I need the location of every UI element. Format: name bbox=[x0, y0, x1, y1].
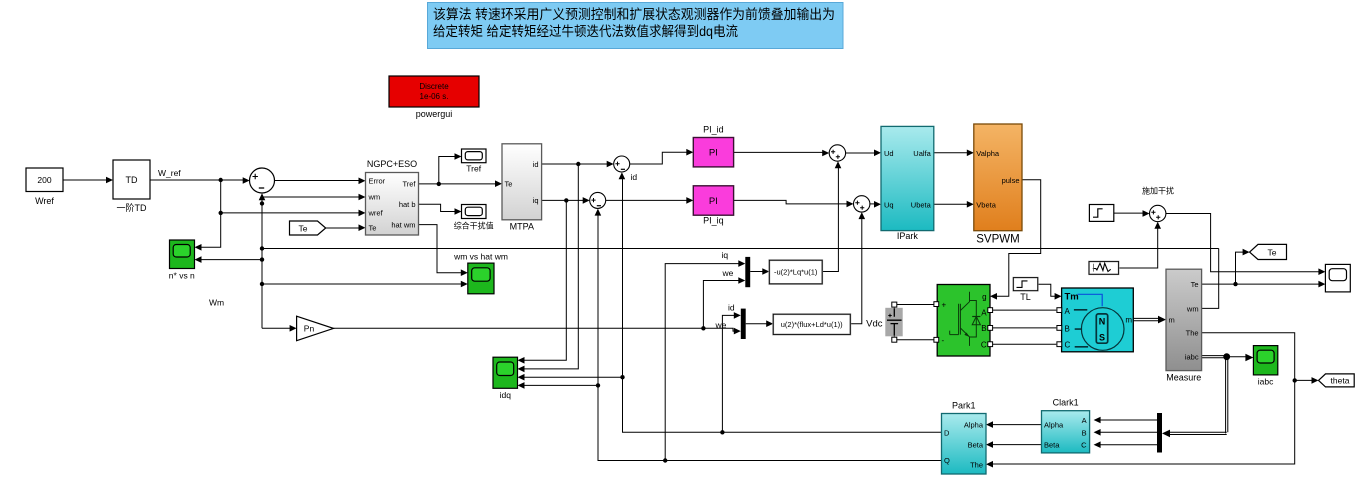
node W_ref branch down to wref and n*vs n scope bbox=[195, 180, 223, 251]
svg-text:Error: Error bbox=[369, 177, 386, 186]
svg-text:施加干扰: 施加干扰 bbox=[1142, 186, 1174, 196]
svg-text:Ud: Ud bbox=[884, 149, 894, 158]
wire Vdc plus to inverter bbox=[892, 302, 935, 308]
wire TL to motor Tm bbox=[1038, 284, 1062, 299]
subsystem Measure (gray) bbox=[1166, 269, 1202, 382]
svg-text:Te: Te bbox=[1191, 280, 1199, 289]
svg-text:综合干扰值: 综合干扰值 bbox=[454, 221, 494, 231]
wire repeating sequence to disturbance sum bbox=[1119, 222, 1161, 268]
wire Measure Te to scope bbox=[1202, 281, 1326, 288]
svg-text:Measure: Measure bbox=[1166, 373, 1201, 383]
svg-text:PI: PI bbox=[709, 148, 718, 159]
svg-text:D: D bbox=[944, 428, 950, 437]
sum speed loop bbox=[250, 168, 275, 193]
svg-text:Tm: Tm bbox=[1065, 291, 1079, 302]
svg-text:+: + bbox=[942, 300, 947, 309]
wire SVPWM pulse to inverter g bbox=[990, 180, 1041, 300]
wire Fcn2 up to Uq sum plus bbox=[850, 212, 865, 324]
wire inverter A to motor A bbox=[993, 309, 1057, 311]
svg-text:Park1: Park1 bbox=[952, 401, 976, 411]
subsystem NGPC+ESO bbox=[366, 159, 419, 235]
wire Wref to TD bbox=[63, 177, 113, 184]
wire demux out C to Clark1 bbox=[1094, 441, 1157, 448]
wire inverter C to motor C bbox=[993, 343, 1057, 345]
label we near mux1 bbox=[722, 268, 734, 278]
svg-text:Alpha: Alpha bbox=[1044, 421, 1064, 430]
block TL (step) bbox=[1013, 278, 1038, 302]
svg-text:Te: Te bbox=[1268, 247, 1277, 257]
block PI_iq bbox=[693, 186, 733, 226]
svg-text:Uq: Uq bbox=[884, 200, 894, 209]
svg-text:200: 200 bbox=[37, 175, 51, 185]
svg-text:N: N bbox=[1099, 317, 1106, 327]
wire Ubeta to Vbeta bbox=[934, 201, 974, 208]
wire demux out B to Clark1 bbox=[1094, 429, 1157, 436]
scope output (white) bbox=[1325, 264, 1350, 292]
demux (black bar) bbox=[1157, 413, 1162, 453]
wire Tref branch up into Tref scope bbox=[439, 153, 462, 184]
wire wm feedback vertical into sum minus bbox=[259, 193, 266, 328]
subsystem IPark bbox=[881, 126, 934, 241]
fcn block -u(2)*Lq*u(1) bbox=[769, 260, 822, 284]
block PI_id bbox=[693, 125, 733, 167]
goto tag Te bbox=[1250, 244, 1287, 259]
from tag Te bbox=[290, 221, 326, 235]
scope iabc (green) bbox=[1253, 346, 1277, 387]
wire PI_iq to Uq sum bbox=[734, 200, 854, 207]
wire disturbance sum to scope bbox=[1166, 214, 1326, 276]
svg-text:SVPWM: SVPWM bbox=[976, 234, 1019, 246]
wire W_ref TD to speed sum bbox=[150, 177, 250, 184]
fcn block u(2)*(flux+Ld*u(1)) bbox=[773, 314, 850, 334]
label id near sum bbox=[631, 172, 638, 182]
svg-text:C: C bbox=[1065, 340, 1071, 349]
constant Wref 200 bbox=[26, 168, 63, 206]
svg-text:The: The bbox=[970, 461, 983, 470]
svg-text:Te: Te bbox=[299, 223, 308, 233]
wire Pn output we line bbox=[334, 326, 741, 334]
wire motor m bus to Measure bbox=[1133, 316, 1166, 324]
svg-text:Wm: Wm bbox=[209, 298, 224, 308]
wire Clark1 Beta to Park1 Beta bbox=[986, 441, 1042, 448]
svg-text:A: A bbox=[1065, 307, 1071, 316]
svg-text:iabc: iabc bbox=[1258, 377, 1274, 387]
scope idq (green, flipped) bbox=[493, 357, 518, 400]
svg-text:IPark: IPark bbox=[897, 231, 919, 241]
wire PI_id to Ud sum bbox=[734, 150, 830, 157]
svg-text:we: we bbox=[722, 268, 734, 278]
wire Measure The to Park1 bbox=[986, 333, 1297, 468]
label 施加干扰 bbox=[1142, 186, 1174, 196]
scope n* vs n (green, flipped) bbox=[169, 240, 195, 281]
block TD (一阶TD) bbox=[113, 160, 150, 213]
svg-text:theta: theta bbox=[1331, 376, 1350, 386]
scope Tref (white) bbox=[462, 149, 487, 174]
svg-text:we: we bbox=[715, 320, 727, 330]
svg-text:wm vs hat wm: wm vs hat wm bbox=[453, 252, 508, 262]
scope wm vs hat wm (green) bbox=[453, 252, 508, 294]
svg-text:-: - bbox=[942, 336, 945, 345]
wire Park1 D feedback bbox=[619, 172, 942, 434]
svg-text:id: id bbox=[533, 160, 539, 169]
svg-text:W_ref: W_ref bbox=[158, 168, 181, 178]
svg-text:S: S bbox=[1099, 333, 1105, 343]
svg-text:Beta: Beta bbox=[968, 441, 984, 450]
wire Tref out to MTPA Te bbox=[419, 180, 503, 187]
svg-text:Ubeta: Ubeta bbox=[911, 200, 932, 209]
wire Vdc minus to inverter bbox=[892, 336, 935, 342]
wire step to disturbance sum bbox=[1114, 210, 1150, 217]
svg-text:Clark1: Clark1 bbox=[1053, 398, 1079, 408]
svg-text:g: g bbox=[982, 292, 986, 301]
svg-text:该算法 转速环采用广义预测控制和扩展状态观测器作为前馈叠加输: 该算法 转速环采用广义预测控制和扩展状态观测器作为前馈叠加输出为 bbox=[433, 6, 835, 22]
svg-text:Vbeta: Vbeta bbox=[976, 200, 996, 209]
mux1 (black bar) bbox=[745, 257, 750, 287]
svg-text:n* vs n: n* vs n bbox=[169, 271, 195, 281]
wire Ud sum to IPark Ud bbox=[846, 150, 881, 157]
wire id ref down to idq scope input2 bbox=[518, 164, 579, 372]
wire MTPA id to id sum bbox=[542, 161, 614, 168]
svg-text:Q: Q bbox=[944, 456, 950, 465]
svg-text:Valpha: Valpha bbox=[976, 149, 1000, 158]
subsystem Clark1 (cyan) bbox=[1042, 398, 1090, 453]
motor PMSM (cyan) bbox=[1057, 288, 1133, 352]
wire wm feedback long line bbox=[262, 248, 1219, 250]
svg-text:Wref: Wref bbox=[35, 196, 54, 206]
wire inverter B to motor B bbox=[993, 327, 1057, 329]
subsystem SVPWM bbox=[974, 124, 1022, 246]
wire mux1 to Fcn1 bbox=[750, 268, 769, 275]
wire hat wm to wm-vs-hat-wm scope input1 bbox=[419, 225, 468, 276]
wire The branch to theta goto bbox=[1295, 377, 1319, 384]
svg-text:TD: TD bbox=[126, 175, 138, 185]
wire hat b to scope bbox=[419, 204, 462, 215]
wire iq sum to PI_iq bbox=[606, 197, 694, 204]
svg-text:Te: Te bbox=[369, 224, 377, 233]
wire speed sum to NGPC Error bbox=[275, 178, 366, 185]
wire Park1 Q feedback bbox=[595, 209, 942, 463]
wire id measured up to mux2 bbox=[722, 312, 740, 432]
wire Ualfa to Valpha bbox=[934, 150, 974, 157]
svg-text:Te: Te bbox=[505, 180, 513, 189]
svg-text:给定转矩 给定转矩经过牛顿迭代法数值求解得到dq电流: 给定转矩 给定转矩经过牛顿迭代法数值求解得到dq电流 bbox=[433, 23, 738, 39]
svg-text:iq: iq bbox=[722, 250, 729, 260]
wire wm to n* vs n scope input2 bbox=[195, 256, 263, 263]
label we near mux2 bbox=[715, 320, 727, 330]
svg-text:wref: wref bbox=[368, 209, 384, 218]
subsystem Park1 (cyan) bbox=[942, 401, 987, 475]
svg-text:PI: PI bbox=[709, 196, 718, 207]
label Wm bbox=[209, 298, 224, 308]
wire Fcn1 up to Ud sum plus bbox=[822, 161, 841, 271]
sum disturbance bbox=[1150, 205, 1166, 221]
wire MTPA iq to iq sum bbox=[542, 197, 590, 204]
svg-text:MTPA: MTPA bbox=[510, 222, 534, 232]
svg-text:A: A bbox=[981, 308, 987, 317]
wire we branch up to mux1 bbox=[703, 277, 745, 328]
repeating sequence block bbox=[1089, 262, 1119, 275]
wire Clark1 Alpha to Park1 Alpha bbox=[986, 421, 1042, 428]
svg-text:id: id bbox=[728, 303, 735, 313]
svg-text:powergui: powergui bbox=[416, 109, 453, 119]
svg-text:m: m bbox=[1125, 315, 1132, 324]
wire Measure iabc bus to scope and demux bbox=[1162, 353, 1253, 437]
wire demux out A to Clark1 bbox=[1094, 417, 1157, 424]
label W_ref bbox=[158, 168, 181, 178]
svg-text:pulse: pulse bbox=[1002, 176, 1020, 185]
svg-text:Beta: Beta bbox=[1044, 441, 1060, 450]
svg-text:Vdc: Vdc bbox=[866, 319, 883, 330]
goto tag theta bbox=[1319, 374, 1355, 387]
wire wref into NGPC bbox=[221, 210, 366, 217]
svg-text:Pn: Pn bbox=[304, 324, 315, 334]
wire Q branch to idq scope input4 bbox=[518, 382, 599, 389]
wire Te branch to Te goto tag bbox=[1236, 249, 1250, 284]
mux2 (black bar) bbox=[741, 309, 746, 339]
label iq near mux1 bbox=[722, 250, 729, 260]
powergui block bbox=[389, 76, 479, 119]
svg-text:Discrete: Discrete bbox=[419, 82, 449, 91]
svg-text:PI_id: PI_id bbox=[703, 125, 724, 135]
wire D branch to idq scope input3 bbox=[518, 374, 623, 381]
svg-text:NGPC+ESO: NGPC+ESO bbox=[367, 159, 417, 169]
svg-text:The: The bbox=[1186, 329, 1199, 338]
label id near mux2 bbox=[728, 303, 735, 313]
sum iq current bbox=[590, 192, 606, 208]
wire mux2 to Fcn2 bbox=[746, 320, 774, 327]
annotation note box bbox=[428, 3, 844, 49]
svg-text:iabc: iabc bbox=[1185, 353, 1199, 362]
wire id sum to PI_id bbox=[630, 149, 694, 164]
wire wm to NGPC wm port bbox=[262, 194, 366, 201]
svg-text:C: C bbox=[1081, 441, 1087, 450]
svg-text:wm: wm bbox=[1186, 304, 1199, 313]
svg-text:A: A bbox=[1082, 416, 1087, 425]
svg-text:Tref: Tref bbox=[466, 164, 481, 174]
svg-text:B: B bbox=[981, 324, 986, 333]
subsystem MTPA bbox=[502, 144, 542, 232]
svg-text:PI_iq: PI_iq bbox=[703, 216, 724, 226]
sum Ud bbox=[829, 145, 845, 161]
wire Te from-tag to NGPC Te bbox=[326, 224, 366, 231]
svg-text:-u(2)*Lq*u(1): -u(2)*Lq*u(1) bbox=[774, 268, 818, 277]
wire Measure wm feedback up bbox=[1202, 249, 1219, 309]
svg-text:TL: TL bbox=[1020, 292, 1031, 302]
svg-text:hat b: hat b bbox=[399, 200, 416, 209]
wire wm down to Pn gain bbox=[262, 325, 297, 332]
step block (disturbance) bbox=[1089, 205, 1113, 222]
svg-text:u(2)*(flux+Ld*u(1)): u(2)*(flux+Ld*u(1)) bbox=[781, 320, 843, 329]
svg-text:一阶TD: 一阶TD bbox=[117, 202, 147, 213]
wire Uq sum to IPark Uq bbox=[870, 201, 881, 208]
svg-text:idq: idq bbox=[500, 390, 512, 400]
scope 综合干扰值 (white) bbox=[454, 205, 494, 231]
svg-text:C: C bbox=[981, 340, 987, 349]
svg-text:B: B bbox=[1082, 428, 1087, 437]
svg-text:Tref: Tref bbox=[402, 180, 416, 189]
gain Pn (triangle) bbox=[297, 316, 334, 341]
svg-text:wm: wm bbox=[368, 193, 381, 202]
svg-text:iq: iq bbox=[533, 196, 539, 205]
svg-text:id: id bbox=[631, 172, 638, 182]
wire iq ref down to idq scope input1 bbox=[518, 200, 567, 363]
sum id current bbox=[614, 156, 630, 172]
svg-text:Ualfa: Ualfa bbox=[913, 149, 931, 158]
svg-text:m: m bbox=[1169, 316, 1175, 325]
wire wm to wm-vs-hat-wm scope input2 bbox=[262, 281, 468, 288]
svg-text:1e-06 s.: 1e-06 s. bbox=[420, 92, 449, 101]
sum Uq bbox=[854, 196, 870, 212]
wire iq measured up to mux1 bbox=[665, 260, 745, 460]
svg-text:hat wm: hat wm bbox=[391, 220, 415, 229]
inverter universal bridge (green) bbox=[934, 285, 993, 357]
svg-text:B: B bbox=[1065, 324, 1070, 333]
svg-text:Alpha: Alpha bbox=[964, 421, 984, 430]
dc source Vdc bbox=[866, 308, 902, 336]
